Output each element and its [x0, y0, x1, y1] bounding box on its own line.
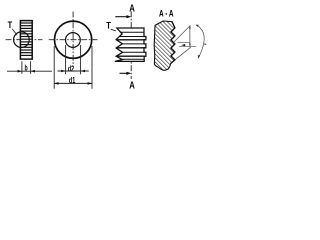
- svg-text:T: T: [106, 21, 111, 31]
- front view bore circle: [66, 33, 81, 48]
- svg-text:A - A: A - A: [159, 8, 174, 18]
- wire center line horizontal view2: [49, 39, 98, 41]
- dimension d1: [54, 46, 92, 89]
- svg-text:d1: d1: [69, 76, 76, 85]
- pin circle on side view: [14, 32, 30, 48]
- svg-text:d2: d2: [68, 64, 75, 73]
- section cutting line A-A: [130, 11, 132, 79]
- wire leader T left: [12, 29, 17, 35]
- vertical dimension line with arrows: [189, 26, 191, 47]
- tooth flank extension lower: [175, 47, 191, 60]
- small angle value mark: [181, 44, 185, 46]
- section arrow bottom: [120, 72, 132, 75]
- svg-text:b: b: [25, 64, 28, 73]
- tooth flank extension upper: [174, 25, 191, 42]
- svg-text:A: A: [129, 3, 135, 14]
- hatched section A-A: [154, 21, 175, 70]
- dimension d2: [58, 45, 89, 74]
- horizontal reference line 2: [179, 46, 196, 48]
- front view outer circle: [55, 21, 92, 58]
- dimension b: [7, 61, 52, 74]
- knurled wheel partial side view (view 3): [115, 28, 146, 61]
- serrated teeth edge overlay: [171, 22, 175, 64]
- horizontal reference line 1: [178, 42, 190, 44]
- outline with break-line zigzag left edge and stepped right edge: [115, 28, 146, 61]
- knurled wheel side view body: [20, 21, 33, 60]
- svg-text:T: T: [8, 20, 13, 30]
- wire center line view1: [6, 39, 43, 41]
- section arrow top: [115, 15, 131, 18]
- svg-text:A: A: [129, 81, 135, 92]
- wire center line vertical view2: [72, 12, 74, 68]
- angle dimension arc: [196, 25, 207, 59]
- wire leader T view3: [111, 29, 116, 31]
